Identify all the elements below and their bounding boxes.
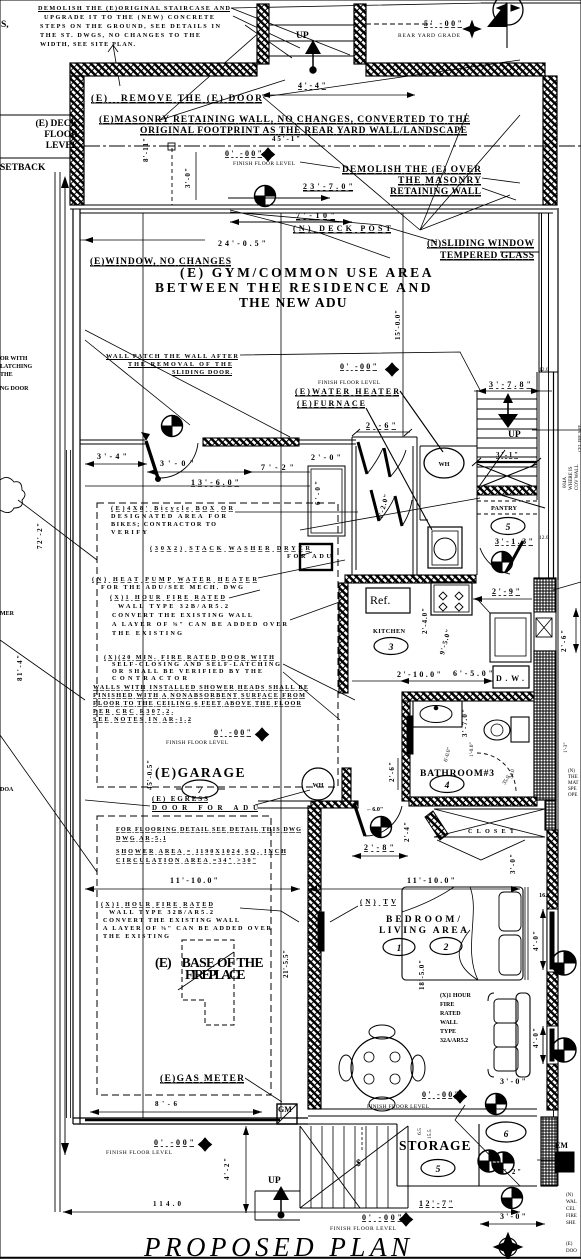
dashed landing line	[366, 23, 432, 25]
bath sink counter	[413, 701, 462, 727]
wall line to closet	[80, 440, 356, 444]
svg-text:OPE: OPE	[568, 793, 577, 798]
svg-text:THE REMOVAL OF THE: THE REMOVAL OF THE	[128, 361, 232, 368]
revision cloud left	[0, 477, 25, 512]
svg-text:(E) EGRESS: (E) EGRESS	[152, 795, 208, 803]
dashed garage region A	[97, 503, 338, 787]
svg-text:REAR YARD GRADE: REAR YARD GRADE	[398, 33, 461, 39]
svg-text:(E) DECK: (E) DECK	[36, 118, 79, 129]
svg-text:45'-0.5": 45'-0.5"	[146, 760, 154, 790]
svg-text:(30X2) STACK WASHER DRYER: (30X2) STACK WASHER DRYER	[150, 545, 311, 552]
leader wall patch	[240, 352, 480, 390]
svg-text:LEVEL: LEVEL	[46, 141, 78, 151]
wall face lines left lower	[67, 450, 71, 1118]
svg-text:DOO: DOO	[566, 1249, 577, 1254]
retaining wall top left segment	[70, 63, 257, 76]
svg-text:WHERE IS: WHERE IS	[569, 466, 574, 490]
svg-text:1'-0.0": 1'-0.0"	[469, 742, 475, 757]
right grid wall bottom	[541, 1117, 557, 1186]
svg-text:3'-0": 3'-0"	[500, 1077, 526, 1086]
kitchen top wall hatched	[345, 575, 476, 583]
pantry dashed shelves	[477, 501, 537, 514]
svg-text:6.5: 6.5	[417, 1128, 423, 1135]
right grid wall kitchen lower	[534, 651, 556, 800]
svg-text:WAL: WAL	[566, 1200, 577, 1205]
kitchen zone top wall hatched	[203, 438, 299, 446]
svg-text:4'-2": 4'-2"	[223, 1158, 231, 1180]
stair top left wall	[257, 4, 269, 64]
callout circle T.3	[162, 416, 183, 437]
deck band arrows	[230, 221, 352, 223]
svg-text:COV WALL: COV WALL	[575, 464, 580, 490]
svg-text:MAT: MAT	[568, 781, 579, 786]
wh circle garage	[302, 768, 334, 800]
svg-text:11'-10.0": 11'-10.0"	[170, 876, 218, 885]
dining table	[339, 1025, 425, 1111]
svg-text:UP: UP	[268, 1176, 281, 1186]
stair right wall lines	[477, 372, 537, 575]
svg-text:12.0: 12.0	[539, 367, 549, 373]
svg-text:5: 5	[506, 523, 511, 533]
wall piece above door	[342, 768, 351, 801]
svg-text:SPE: SPE	[568, 787, 577, 792]
leader washer	[300, 552, 312, 556]
gas meter box	[277, 1104, 297, 1124]
svg-text:PROPOSED PLAN: PROPOSED PLAN	[143, 1232, 412, 1259]
dashed garage region B	[97, 816, 271, 1095]
callout double bottom	[478, 1150, 514, 1174]
pantry door arc	[480, 548, 510, 574]
svg-text:(E)GARAGE: (E)GARAGE	[155, 765, 245, 780]
fridge	[366, 588, 410, 613]
svg-text:PANTRY: PANTRY	[491, 505, 518, 512]
svg-text:(X)1 HOUR FIRE RATED: (X)1 HOUR FIRE RATED	[110, 594, 226, 601]
leader remove door	[263, 60, 520, 230]
washer dryer box	[300, 544, 332, 570]
svg-text:TYPE: TYPE	[440, 1029, 456, 1035]
star diamond bottom	[494, 1233, 522, 1259]
arrow line deck	[228, 197, 330, 199]
svg-text:THE: THE	[0, 372, 13, 378]
svg-text:18'-5.0": 18'-5.0"	[418, 960, 426, 990]
svg-text:LATCHING: LATCHING	[0, 364, 33, 370]
room tag 6	[486, 1122, 526, 1142]
retaining wall bottom edge	[70, 205, 557, 209]
furnace closet walls	[352, 437, 417, 575]
text fire rated wall stack	[440, 992, 471, 1044]
svg-text:(E)WINDOW, NO CHANGES: (E)WINDOW, NO CHANGES	[90, 256, 231, 267]
bed	[402, 887, 528, 980]
leader egress	[85, 790, 310, 806]
svg-text:004A: 004A	[563, 477, 568, 489]
stove	[431, 582, 472, 615]
svg-text:2'-6": 2'-6"	[388, 762, 396, 782]
wh closet lines	[420, 446, 477, 520]
svg-text:UP: UP	[508, 430, 521, 440]
svg-text:12.0: 12.0	[539, 535, 549, 541]
svg-text:CIRCULATION AREA =34" >30": CIRCULATION AREA =34" >30"	[116, 857, 256, 864]
diamond marker grade	[464, 21, 481, 37]
leader bottom right	[455, 1105, 555, 1186]
svg-text:DOA: DOA	[0, 787, 14, 793]
svg-text:WALL: WALL	[440, 1020, 458, 1026]
centerline dash-dot	[84, 145, 581, 147]
leader fireplace	[178, 952, 234, 990]
svg-text:2'-6": 2'-6"	[560, 630, 568, 652]
svg-text:PER CRC R307.2.: PER CRC R307.2.	[93, 708, 173, 715]
room tag 5 pantry	[491, 518, 525, 535]
svg-text:FINISH FLOOR LEVEL: FINISH FLOOR LEVEL	[233, 161, 296, 167]
sheet bottom border	[0, 1257, 581, 1259]
callout T.2 bottom	[486, 1094, 507, 1115]
right grid wall kitchen upper	[534, 578, 556, 612]
dashed fireplace box	[182, 940, 234, 1025]
svg-text:BIKES; CONTRACTOR TO: BIKES; CONTRACTOR TO	[111, 521, 216, 528]
svg-text:(N)SLIDING WINDOW: (N)SLIDING WINDOW	[427, 238, 535, 249]
svg-text:3'-7.0": 3'-7.0"	[461, 709, 469, 737]
hatched band top living	[311, 801, 358, 808]
svg-text:FLOOR: FLOOR	[44, 130, 78, 140]
svg-text:SETBACK: SETBACK	[0, 163, 46, 173]
svg-text:OR WITH: OR WITH	[0, 356, 28, 362]
svg-text:NG DOOR: NG DOOR	[0, 386, 29, 392]
svg-text:3'-0": 3'-0"	[509, 854, 517, 874]
svg-text:THE MASONRY: THE MASONRY	[398, 176, 481, 186]
door swing arc	[158, 443, 198, 478]
svg-text:(N): (N)	[568, 769, 575, 774]
leader fire door	[283, 664, 355, 720]
retaining wall left	[70, 76, 84, 205]
svg-text:3'-0": 3'-0"	[500, 1212, 526, 1221]
svg-text:1'-3": 1'-3"	[563, 742, 569, 753]
bathroom bottom wall	[409, 797, 537, 806]
left margin fragment texts	[0, 356, 33, 793]
svg-text:FOR FLOORING DETAIL SEE DETAIL: FOR FLOORING DETAIL SEE DETAIL THIS DWG	[116, 826, 301, 833]
svg-text:(X)1 HOUR: (X)1 HOUR	[440, 992, 471, 999]
svg-text:SHE: SHE	[566, 1221, 575, 1226]
svg-text:STORAGE: STORAGE	[399, 1138, 471, 1153]
long diagonal leader to door	[85, 330, 290, 437]
svg-text:FINISHED WITH A NONABSORBENT S: FINISHED WITH A NONABSORBENT SURFACE FRO…	[93, 692, 305, 699]
svg-text:THE NEW ADU: THE NEW ADU	[239, 295, 347, 310]
bathroom left wall	[402, 701, 410, 801]
svg-text:CEL FRE SHE: CEL FRE SHE	[577, 424, 581, 452]
svg-text:FINISH FLOOR LEVEL: FINISH FLOOR LEVEL	[106, 1150, 173, 1156]
living left wall hatched	[308, 806, 321, 1109]
svg-text:21'-5.5": 21'-5.5"	[282, 950, 290, 978]
svg-text:S,: S,	[1, 20, 9, 30]
svg-text:WH: WH	[438, 461, 449, 468]
up arrow top stair	[305, 40, 321, 54]
svg-text:(E)MASONRY RETAINING WALL, NO: (E)MASONRY RETAINING WALL, NO CHANGES, C…	[99, 114, 470, 125]
svg-text:2: 2	[443, 943, 449, 953]
svg-text:(E)GAS METER: (E)GAS METER	[160, 1073, 244, 1084]
leader fire note 2	[240, 908, 299, 922]
counter right of wd	[308, 466, 345, 536]
window right lower	[547, 1026, 558, 1064]
leader water heater	[366, 391, 443, 530]
svg-text:3'-0": 3'-0"	[184, 168, 192, 188]
tv on wall	[318, 912, 324, 951]
svg-text:STEPS ON THE GROUND, SEE DETAI: STEPS ON THE GROUND, SEE DETAILS IN	[40, 23, 221, 30]
svg-text:RATED: RATED	[440, 1011, 461, 1017]
svg-text:WALLS WITH INSTALLED SHOWER HE: WALLS WITH INSTALLED SHOWER HEADS SHALL …	[93, 684, 308, 691]
svg-text:THE: THE	[568, 775, 578, 780]
svg-text:CONVERT THE EXISTING WALL: CONVERT THE EXISTING WALL	[103, 917, 239, 924]
stair treads top	[269, 25, 354, 56]
kitchen sink right	[490, 613, 531, 662]
sofa	[488, 993, 530, 1077]
garage bottom wall	[73, 1118, 308, 1124]
room tag 4	[430, 776, 464, 793]
svg-text:RETAINING WALL: RETAINING WALL	[390, 187, 481, 197]
leader wire to stair	[160, 25, 292, 120]
note demolish staircase	[38, 5, 231, 48]
bedroom right wall hatched	[547, 830, 558, 1110]
svg-text:FIRE: FIRE	[566, 1214, 577, 1219]
svg-text:WH: WH	[312, 782, 323, 789]
retaining wall right	[543, 76, 557, 205]
room tag 5 storage	[421, 1160, 455, 1177]
bifold door upper	[358, 442, 367, 474]
deck lines left of living	[258, 801, 311, 808]
centerline vertical gym	[143, 213, 403, 1118]
svg-text:SLIDING DOOR.: SLIDING DOOR.	[172, 369, 232, 376]
svg-text:(E) GYM/COMMON USE AREA: (E) GYM/COMMON USE AREA	[180, 265, 432, 280]
building outer wall right upper	[554, 208, 559, 580]
svg-text:CONVERT THE EXISTING WALL: CONVERT THE EXISTING WALL	[112, 612, 252, 619]
bathroom top wall	[402, 692, 534, 701]
svg-text:1: 1	[397, 944, 402, 954]
stair down arrow	[503, 393, 513, 403]
dashed door line	[171, 148, 173, 205]
leader deck post	[230, 210, 390, 258]
leader bike box	[235, 498, 480, 530]
toilet	[511, 717, 529, 742]
svg-text:ORIGINAL FOOTPRINT AS THE REAR: ORIGINAL FOOTPRINT AS THE REAR YARD WALL…	[140, 126, 467, 136]
water heater WH	[424, 448, 464, 478]
stair demo cross	[477, 450, 545, 508]
building outer wall left	[73, 209, 80, 1124]
rotated note right margin	[563, 424, 581, 490]
svg-text:(X)1 HOUR FIRE RATED: (X)1 HOUR FIRE RATED	[101, 901, 214, 908]
svg-text:MER: MER	[0, 611, 15, 617]
retaining wall top right segment	[366, 63, 545, 76]
svg-text:15'-0.0": 15'-0.0"	[394, 310, 402, 340]
svg-text:FINISH FLOOR LEVEL: FINISH FLOOR LEVEL	[166, 740, 229, 746]
stair treads right	[477, 399, 537, 476]
callout T.2 lower right	[502, 1188, 523, 1209]
svg-text:UPGRADE IT TO THE (NEW) CONCRE: UPGRADE IT TO THE (NEW) CONCRETE	[44, 14, 214, 21]
dishwasher	[493, 666, 529, 688]
svg-text:WALL PATCH THE WALL AFTER: WALL PATCH THE WALL AFTER	[106, 353, 239, 360]
pantry door leaf	[506, 541, 523, 572]
door garage-living leaf	[354, 803, 365, 836]
laundry sink	[428, 527, 462, 568]
pocket door dark bar	[407, 716, 413, 754]
room tag 7	[182, 780, 218, 798]
dim lines kitchen top	[85, 464, 310, 486]
door gym-garage leaf	[146, 441, 158, 478]
room tag 2	[430, 938, 462, 955]
leader gas meter	[245, 1078, 282, 1102]
stair hatched band	[477, 486, 537, 495]
svg-text:CEL: CEL	[566, 1207, 575, 1212]
property line left	[55, 172, 60, 1212]
svg-text:4'-0": 4'-0"	[532, 1028, 540, 1048]
callout circle T.2	[255, 186, 276, 207]
svg-text:DEMOLISH THE (E) OVER: DEMOLISH THE (E) OVER	[342, 164, 481, 175]
leader right notes	[553, 582, 581, 590]
svg-text:(N): (N)	[566, 1193, 573, 1198]
svg-text:Ref.: Ref.	[370, 593, 390, 607]
kitchen left wall hatched	[339, 583, 348, 693]
leader sliding window	[230, 212, 437, 242]
callout circle right B	[552, 1038, 576, 1062]
svg-text:2'-4": 2'-4"	[403, 822, 411, 842]
svg-text:FIREPLACE: FIREPLACE	[185, 967, 246, 982]
svg-text:WIDTH, SEE SITE PLAN.: WIDTH, SEE SITE PLAN.	[40, 41, 135, 48]
kitchen window	[534, 612, 556, 651]
leader fire note	[229, 560, 345, 620]
leader masonry	[300, 162, 520, 200]
svg-text:4'-0": 4'-0"	[532, 931, 540, 951]
closet chevron	[437, 840, 525, 860]
callout circle door	[371, 817, 392, 838]
svg-text:WALL TYPE 32B/AR5.2: WALL TYPE 32B/AR5.2	[118, 603, 228, 610]
svg-text:(X)(20 MIN. FIRE RATED DOOR WI: (X)(20 MIN. FIRE RATED DOOR WITH	[104, 654, 274, 661]
text deck floor level	[0, 115, 79, 151]
room tag 1	[383, 939, 415, 956]
callout circle T.4 pantry	[492, 552, 513, 573]
svg-text:FLOOR TO THE CEILING 6 FEET AB: FLOOR TO THE CEILING 6 FEET ABOVE THE FL…	[93, 700, 302, 707]
svg-text:EM: EM	[555, 1141, 568, 1150]
dim line window upper	[542, 909, 544, 970]
svg-text:(N) TV: (N) TV	[360, 898, 396, 906]
stairs bottom	[300, 1126, 408, 1208]
closet box	[434, 809, 545, 837]
leader up	[532, 429, 581, 431]
right margin note bath	[568, 769, 579, 798]
dim line window lower	[542, 1026, 544, 1064]
closet corner hatch	[425, 811, 448, 840]
compass north	[481, 0, 581, 48]
svg-text:KITCHEN: KITCHEN	[373, 628, 406, 635]
svg-text:11'-10.0": 11'-10.0"	[407, 876, 455, 885]
living bottom wall	[308, 1109, 537, 1116]
svg-text:WALL TYPE 32B/AR5.2: WALL TYPE 32B/AR5.2	[109, 909, 213, 916]
svg-text:3: 3	[388, 643, 394, 653]
underline strokes	[38, 12, 534, 1084]
svg-text:32A/AR5.2: 32A/AR5.2	[440, 1038, 468, 1044]
dim line kitchen	[352, 680, 493, 682]
bifold door lower	[371, 490, 379, 521]
svg-text:(N) HEAT PUMP WATER HEATER: (N) HEAT PUMP WATER HEATER	[92, 576, 258, 583]
gym inner top line	[80, 212, 553, 214]
svg-text:UP: UP	[296, 31, 309, 41]
window sill line gym	[80, 239, 205, 241]
svg-text:(E): (E)	[566, 1242, 573, 1247]
storage room outline	[308, 1124, 537, 1186]
bath door dashed swing	[477, 753, 516, 792]
leader from cloud	[0, 500, 97, 872]
stair top right wall	[354, 4, 366, 64]
svg-text:$: $	[356, 1158, 361, 1169]
right margin tiny note bottom	[566, 1193, 577, 1254]
svg-text:3'-2": 3'-2"	[499, 1168, 521, 1176]
svg-text:4: 4	[444, 781, 450, 791]
room tag 3	[374, 638, 408, 655]
svg-text:FIRE: FIRE	[440, 1002, 454, 1008]
svg-text:SEE NOTES IN AR-1.2: SEE NOTES IN AR-1.2	[93, 716, 191, 723]
right wall inner lines	[539, 372, 558, 1186]
landing box bottom	[255, 1191, 300, 1220]
svg-text:2'-4.0": 2'-4.0"	[421, 608, 429, 634]
callout circle right A	[552, 951, 576, 975]
svg-text:5: 5	[436, 1165, 441, 1175]
right window band vertical	[500, 213, 558, 372]
svg-text:DEMOLISH THE (E)ORIGINAL STAIR: DEMOLISH THE (E)ORIGINAL STAIRCASE AND	[38, 5, 231, 12]
svg-text:←6.0": ←6.0"	[366, 806, 383, 813]
svg-text:6: 6	[504, 1130, 509, 1140]
svg-text:FINISH FLOOR LEVEL: FINISH FLOOR LEVEL	[318, 380, 381, 386]
setback arrow	[64, 186, 66, 1155]
leader wire from note	[108, 3, 485, 86]
window right upper	[547, 909, 558, 972]
up arrow bottom	[273, 1186, 289, 1200]
svg-text:GM: GM	[278, 1105, 292, 1114]
right wall step band	[545, 800, 556, 830]
